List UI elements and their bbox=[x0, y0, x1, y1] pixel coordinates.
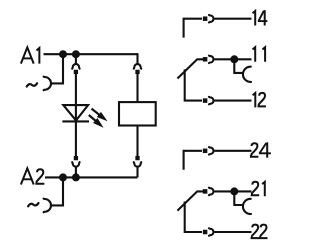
plug-in connection socket (11) bbox=[209, 56, 214, 64]
terminal socket A1 bbox=[44, 77, 51, 91]
plug-in connection socket (coil bottom) bbox=[134, 162, 142, 167]
wire LED branch bbox=[75, 74, 77, 156]
wire A2 terminal drop bbox=[51, 177, 63, 205]
terminal label 21 bbox=[252, 182, 260, 196]
plug-in connection pin (22) bbox=[203, 230, 208, 235]
wire coil bottom bbox=[136, 127, 138, 157]
junction dot 11 bbox=[230, 55, 238, 63]
wire to terminal 21 bbox=[214, 190, 251, 192]
test socket 21 bbox=[243, 199, 251, 214]
terminal label 14 bbox=[253, 11, 256, 26]
junction dot A2-a bbox=[59, 173, 67, 181]
terminal label A1 bbox=[21, 47, 34, 63]
plug-in connection socket (24) bbox=[209, 147, 214, 155]
wire A1 rail bbox=[44, 53, 138, 55]
terminal label 12 bbox=[253, 93, 256, 108]
wire LED branch top stub bbox=[75, 54, 77, 64]
LED emission arrow 2 bbox=[89, 115, 97, 122]
plug-in connection socket (14) bbox=[209, 15, 214, 23]
changeover contact armature (21) bbox=[178, 191, 203, 210]
wire to terminal 12 bbox=[214, 100, 251, 102]
wire A1 terminal drop bbox=[51, 54, 63, 83]
wire to terminal 22 bbox=[214, 231, 251, 233]
wire coil branch bottom stub bbox=[136, 167, 138, 177]
plug-in connection socket (21) bbox=[209, 188, 214, 196]
junction dot A1-a bbox=[59, 50, 67, 58]
wire to terminal 14 bbox=[214, 18, 251, 20]
wire to terminal 11 bbox=[214, 58, 251, 60]
wire NO contact 14 bbox=[184, 19, 202, 38]
wire NC contact 12 bbox=[185, 69, 202, 100]
wire NC contact 22 bbox=[185, 202, 202, 233]
plug-in connection socket (LED top) bbox=[72, 64, 80, 69]
relay coil bbox=[119, 102, 156, 125]
plug-in connection pin (11) bbox=[203, 57, 208, 62]
plug-in connection pin (14) bbox=[203, 16, 208, 21]
plug-in connection pin (LED bottom) bbox=[74, 156, 78, 160]
junction dot A2-b bbox=[72, 173, 80, 181]
AC symbol at A2 bbox=[28, 203, 38, 206]
AC symbol at A1 bbox=[27, 83, 37, 86]
wire to terminal 24 bbox=[214, 150, 251, 152]
wire NO contact 24 bbox=[184, 151, 202, 170]
changeover contact armature (11) bbox=[178, 59, 203, 78]
terminal socket A2 bbox=[44, 199, 51, 213]
wire A2 rail bbox=[45, 176, 138, 178]
terminal label 11 bbox=[253, 47, 256, 62]
test tap wire 11 bbox=[234, 59, 243, 73]
wire LED branch bottom stub bbox=[75, 167, 77, 177]
plug-in connection socket (coil top) bbox=[134, 64, 142, 69]
plug-in connection pin (24) bbox=[203, 149, 208, 154]
plug-in connection pin (coil bottom) bbox=[135, 156, 139, 160]
wire coil branch top stub bbox=[136, 53, 138, 64]
LED bbox=[63, 105, 88, 120]
plug-in connection socket (LED bottom) bbox=[72, 162, 80, 167]
wire coil top bbox=[136, 74, 138, 102]
junction dot A1-b bbox=[72, 50, 80, 58]
plug-in connection pin (LED top) bbox=[74, 70, 78, 74]
test socket 11 bbox=[243, 67, 251, 82]
terminal label 24 bbox=[251, 143, 259, 157]
plug-in connection pin (21) bbox=[203, 189, 208, 194]
LED emission arrow 1 bbox=[92, 109, 101, 116]
terminal label 22 bbox=[252, 225, 260, 239]
test tap wire 21 bbox=[234, 191, 243, 205]
plug-in connection socket (22) bbox=[209, 228, 214, 236]
junction dot 21 bbox=[230, 187, 238, 195]
plug-in connection pin (coil top) bbox=[135, 70, 139, 74]
plug-in connection socket (12) bbox=[209, 97, 214, 105]
plug-in connection pin (12) bbox=[203, 98, 208, 103]
terminal label A2 bbox=[21, 168, 34, 184]
